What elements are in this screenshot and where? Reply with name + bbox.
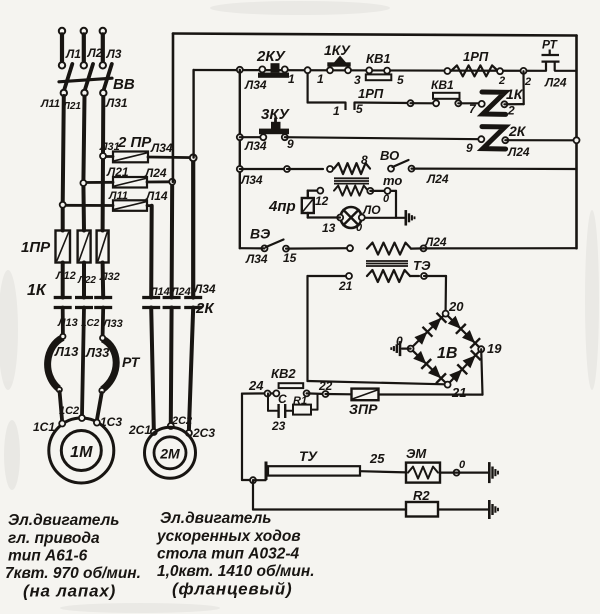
svg-text:Эл.двигатель: Эл.двигатель (8, 512, 119, 529)
svg-text:Л24: Л24 (424, 235, 447, 249)
svg-text:ВО: ВО (380, 148, 399, 163)
svg-text:2: 2 (507, 104, 515, 118)
svg-text:0: 0 (383, 193, 390, 205)
svg-text:то: то (383, 173, 402, 188)
svg-text:Эл.двигатель: Эл.двигатель (160, 510, 271, 527)
svg-text:ЛО: ЛО (362, 203, 381, 217)
svg-text:тип А61-6: тип А61-6 (8, 548, 88, 565)
svg-text:9: 9 (466, 141, 473, 155)
svg-text:Л3: Л3 (106, 47, 122, 61)
svg-text:Л34: Л34 (244, 139, 267, 153)
svg-text:19: 19 (487, 341, 502, 356)
svg-text:20: 20 (448, 299, 464, 314)
svg-text:5: 5 (397, 73, 404, 87)
svg-text:3КУ: 3КУ (261, 106, 291, 123)
svg-text:Л11: Л11 (108, 190, 128, 202)
svg-text:ТЭ: ТЭ (413, 258, 431, 273)
svg-text:23: 23 (271, 419, 286, 433)
svg-text:ЗПР: ЗПР (349, 401, 378, 417)
svg-text:Л11: Л11 (40, 98, 60, 110)
svg-text:Л34: Л34 (150, 141, 173, 155)
svg-text:Л24: Л24 (426, 172, 449, 186)
svg-text:Л24: Л24 (507, 145, 530, 159)
svg-text:ВВ: ВВ (113, 76, 135, 93)
svg-text:Л13: Л13 (54, 344, 79, 359)
svg-text:С: С (278, 392, 287, 406)
svg-text:R1: R1 (293, 395, 307, 407)
svg-text:2: 2 (498, 75, 505, 87)
svg-text:1В: 1В (437, 345, 457, 362)
svg-text:КВ1: КВ1 (431, 78, 454, 92)
svg-text:21: 21 (451, 385, 466, 400)
svg-text:0: 0 (356, 222, 363, 234)
svg-text:22: 22 (318, 379, 333, 393)
svg-text:1РП: 1РП (463, 49, 489, 64)
svg-text:2М: 2М (159, 446, 180, 462)
svg-text:15: 15 (283, 251, 297, 265)
svg-text:Л2: Л2 (87, 46, 103, 60)
svg-text:2С1: 2С1 (128, 423, 151, 437)
svg-text:ускоренных ходов: ускоренных ходов (156, 528, 301, 545)
svg-text:12: 12 (315, 194, 329, 208)
svg-text:8: 8 (361, 153, 368, 167)
svg-text:стола тип А032-4: стола тип А032-4 (157, 546, 299, 563)
svg-text:1,0квт. 1410 об/мин.: 1,0квт. 1410 об/мин. (157, 563, 315, 580)
svg-text:Л24: Л24 (544, 76, 567, 90)
svg-text:1: 1 (333, 104, 340, 118)
svg-text:(на лапах): (на лапах) (23, 582, 116, 601)
svg-text:Л24: Л24 (144, 166, 167, 180)
svg-text:2: 2 (524, 76, 531, 88)
svg-text:1С2: 1С2 (59, 405, 79, 417)
svg-text:13: 13 (322, 221, 336, 235)
svg-text:РТ: РТ (542, 38, 559, 52)
svg-text:25: 25 (369, 451, 385, 466)
svg-text:2С3: 2С3 (192, 426, 215, 440)
svg-text:Л21: Л21 (106, 165, 129, 179)
svg-text:Л33: Л33 (85, 345, 110, 360)
svg-text:Л13: Л13 (57, 317, 78, 329)
svg-text:Л22: Л22 (77, 275, 96, 286)
svg-text:1ПР: 1ПР (21, 239, 51, 256)
svg-text:2КУ: 2КУ (256, 48, 287, 65)
svg-text:1М: 1М (70, 444, 93, 461)
svg-text:1С1: 1С1 (33, 420, 55, 434)
svg-text:1: 1 (317, 72, 324, 86)
svg-text:4пр: 4пр (268, 198, 296, 215)
svg-text:КВ1: КВ1 (366, 51, 391, 66)
svg-text:Л14: Л14 (145, 189, 168, 203)
svg-text:Л34: Л34 (245, 252, 268, 266)
svg-text:1РП: 1РП (358, 86, 384, 101)
svg-text:5: 5 (356, 102, 363, 116)
svg-text:2 ПР: 2 ПР (117, 134, 152, 151)
svg-text:3: 3 (354, 73, 361, 87)
svg-text:2С2: 2С2 (171, 415, 192, 427)
svg-text:1К: 1К (27, 282, 47, 299)
svg-text:РТ: РТ (122, 354, 141, 370)
svg-text:(фланцевый): (фланцевый) (172, 580, 292, 599)
svg-text:Л31: Л31 (99, 141, 120, 153)
svg-text:гл. привода: гл. привода (8, 530, 100, 547)
svg-text:ВЭ: ВЭ (250, 226, 270, 242)
svg-text:Л1: Л1 (65, 47, 81, 61)
svg-text:ЭМ: ЭМ (406, 446, 427, 461)
svg-text:Л34: Л34 (193, 282, 216, 296)
svg-text:9: 9 (287, 137, 294, 151)
svg-text:Л34: Л34 (240, 173, 263, 187)
svg-text:1К: 1К (506, 86, 524, 102)
svg-text:Л34: Л34 (244, 78, 267, 92)
svg-text:КВ2: КВ2 (271, 366, 296, 381)
svg-text:ТУ: ТУ (299, 448, 319, 464)
svg-text:Л12: Л12 (55, 270, 76, 282)
svg-text:0: 0 (459, 459, 466, 471)
svg-text:24: 24 (248, 378, 264, 393)
svg-text:Л31: Л31 (105, 96, 128, 110)
svg-text:1КУ: 1КУ (324, 42, 351, 58)
svg-text:Л32: Л32 (99, 271, 120, 283)
svg-text:21: 21 (338, 279, 353, 293)
svg-text:R2: R2 (413, 488, 430, 503)
svg-text:Л33: Л33 (102, 318, 123, 330)
svg-text:1: 1 (288, 72, 295, 86)
svg-text:2К: 2К (508, 123, 527, 139)
svg-text:7квт. 970 об/мин.: 7квт. 970 об/мин. (5, 565, 141, 582)
